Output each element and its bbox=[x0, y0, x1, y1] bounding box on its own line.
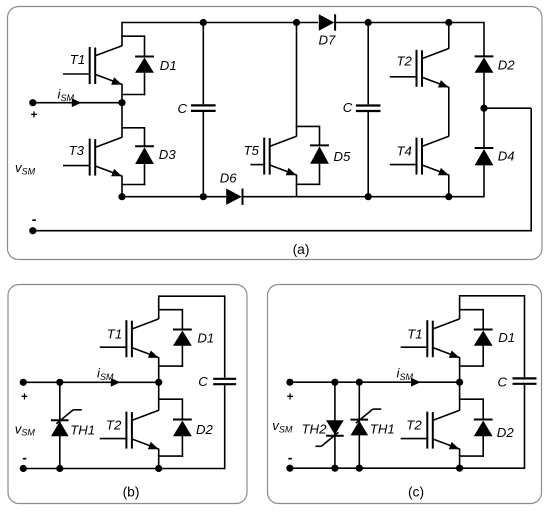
wire D4 upper vertical bbox=[483, 108, 485, 148]
wire D1 lower vertical (b) bbox=[181, 346, 183, 367]
node C2 top junction bbox=[365, 19, 372, 26]
wire top rail (b) bbox=[159, 295, 225, 297]
wire T2 emitter vertical (c) bbox=[459, 449, 461, 469]
wire top rail right segment (a) bbox=[335, 22, 484, 24]
transistor T4 (IGBT) bbox=[390, 136, 449, 175]
wire T2 collector vertical (c) bbox=[459, 382, 461, 410]
wire mid rail left segment (a) bbox=[122, 196, 226, 198]
node T5 collector junction bbox=[293, 19, 300, 26]
wire T5 emitter vertical bbox=[296, 175, 298, 197]
svg-text:T4: T4 bbox=[397, 144, 412, 159]
wire D2 upper vertical (c) bbox=[482, 398, 484, 419]
svg-text:-: - bbox=[288, 450, 293, 466]
wire D2 upper vertical bbox=[483, 22, 485, 57]
svg-text:D1: D1 bbox=[197, 331, 214, 346]
svg-text:D1: D1 bbox=[160, 58, 177, 73]
wire top rail left segment (a) bbox=[122, 22, 318, 24]
wire T3 emitter vertical bbox=[121, 176, 123, 197]
transistor T2 (IGBT) bbox=[390, 49, 449, 88]
svg-text:(b): (b) bbox=[123, 485, 140, 500]
diode D5 bbox=[310, 145, 329, 163]
svg-text:D2: D2 bbox=[498, 57, 516, 72]
capacitor C (b) bbox=[213, 379, 236, 384]
diode D6 bbox=[226, 189, 242, 205]
wire D2 lower vertical (c) bbox=[482, 436, 484, 457]
diode D2 bbox=[475, 56, 494, 72]
diode D2 bbox=[173, 420, 192, 437]
wire T2 collector vertical bbox=[448, 23, 450, 49]
svg-text:T2: T2 bbox=[106, 418, 122, 433]
wire C1 top vertical bbox=[202, 23, 204, 105]
wire C top vertical (b) bbox=[224, 295, 226, 377]
wire T2 collector vertical (b) bbox=[158, 382, 160, 410]
diode D7 bbox=[319, 14, 335, 30]
node TH2 top junction (c) bbox=[331, 379, 338, 386]
svg-text:C: C bbox=[498, 374, 508, 389]
transistor T3 (IGBT) bbox=[63, 137, 122, 176]
wire T1 collector vertical (c) bbox=[459, 295, 461, 319]
terminal - dot (a) bbox=[29, 227, 36, 234]
wire T3 collector vertical bbox=[121, 103, 123, 138]
svg-text:D7: D7 bbox=[319, 33, 337, 48]
wire T1 collector vertical bbox=[121, 22, 123, 47]
wire iSM (a) bbox=[33, 102, 122, 104]
diode D1 bbox=[474, 330, 493, 346]
wire D2 top branch (b) bbox=[158, 398, 183, 400]
svg-text:C: C bbox=[198, 374, 208, 389]
wire mid rail right segment (a) bbox=[242, 196, 484, 198]
svg-text:-: - bbox=[32, 211, 37, 227]
wire D1 top branch bbox=[121, 35, 144, 37]
wire T4 emitter vertical bbox=[448, 175, 450, 197]
current arrow iSM (a) bbox=[72, 98, 82, 107]
diode D1 bbox=[135, 57, 154, 73]
wire top rail (c) bbox=[460, 295, 525, 297]
node TH2 bottom junction (c) bbox=[331, 465, 338, 472]
svg-text:(c): (c) bbox=[408, 485, 424, 500]
svg-text:D5: D5 bbox=[334, 149, 352, 164]
terminal + dot (c) bbox=[286, 379, 293, 386]
wire C bottom vertical (c) bbox=[524, 385, 526, 469]
node TH1 top junction (b) bbox=[56, 379, 63, 386]
capacitor C (left, a) bbox=[191, 105, 216, 111]
wire T2 emitter vertical (b) bbox=[158, 449, 160, 469]
wire D1 top branch (b) bbox=[158, 309, 183, 311]
svg-text:D6: D6 bbox=[220, 171, 238, 186]
terminal + dot (a) bbox=[29, 99, 36, 106]
diode D3 bbox=[135, 146, 154, 164]
diode D1 bbox=[173, 330, 192, 346]
wire output right vertical bbox=[530, 108, 532, 231]
wire D2 top branch (c) bbox=[459, 398, 483, 400]
node TH1 bottom junction (b) bbox=[56, 465, 63, 472]
svg-text:T1: T1 bbox=[407, 326, 422, 341]
wire D1 bottom branch bbox=[121, 94, 145, 96]
node midpoint junction (c) bbox=[456, 379, 463, 386]
wire C1 bottom vertical bbox=[202, 112, 204, 197]
svg-text:T1: T1 bbox=[70, 52, 85, 67]
thyristor TH1 (b) bbox=[51, 410, 82, 436]
svg-text:C: C bbox=[178, 101, 188, 116]
wire D5 bottom branch bbox=[296, 183, 321, 185]
node D2/D4 junction bbox=[480, 105, 487, 112]
wire iSM (b) bbox=[23, 381, 158, 383]
wire iSM (c) bbox=[290, 381, 460, 383]
wire D3 lower vertical bbox=[144, 164, 146, 185]
svg-text:TH1: TH1 bbox=[370, 421, 395, 436]
wire bottom rail (b) bbox=[23, 468, 224, 470]
wire D3 upper vertical bbox=[144, 127, 146, 146]
wire D5 lower vertical bbox=[319, 164, 321, 185]
svg-text:-: - bbox=[22, 450, 27, 466]
svg-text:T2: T2 bbox=[406, 418, 422, 433]
capacitor C (right, a) bbox=[356, 106, 381, 112]
transistor T5 (IGBT) bbox=[251, 136, 297, 175]
node TH1 bottom junction (c) bbox=[356, 465, 363, 472]
wire C2 top vertical bbox=[367, 23, 369, 105]
svg-text:D2: D2 bbox=[497, 425, 515, 440]
wire D1 bottom branch (b) bbox=[158, 365, 183, 367]
svg-text:(a): (a) bbox=[293, 242, 310, 257]
transistor T1 (IGBT) bbox=[100, 319, 159, 358]
wire D1 upper vertical bbox=[144, 35, 146, 56]
current arrow iSM (b) bbox=[111, 378, 121, 387]
node C2 bottom junction bbox=[365, 193, 372, 200]
wire C2 bottom vertical bbox=[367, 112, 369, 197]
wire TH2 vertical (c) bbox=[334, 382, 336, 468]
svg-text:D1: D1 bbox=[498, 330, 515, 345]
wire output branch horizontal bbox=[484, 107, 531, 109]
terminal + dot (b) bbox=[20, 379, 27, 386]
wire T1 collector vertical (b) bbox=[158, 295, 160, 319]
svg-text:+: + bbox=[31, 110, 38, 122]
node T3 emitter junction bbox=[118, 193, 125, 200]
transistor T1 (IGBT) bbox=[401, 319, 460, 358]
node T1/T3 midpoint junction bbox=[118, 99, 125, 106]
svg-text:D4: D4 bbox=[498, 149, 515, 164]
svg-text:D3: D3 bbox=[159, 147, 177, 162]
diode D4 bbox=[475, 148, 494, 165]
transistor T2 (IGBT) bbox=[100, 410, 159, 449]
svg-text:D2: D2 bbox=[196, 422, 214, 437]
capacitor C (c) bbox=[513, 378, 537, 383]
wire T1 emitter vertical (c) bbox=[459, 357, 461, 382]
wire D1 upper vertical (b) bbox=[181, 309, 183, 330]
wire T1 emitter vertical bbox=[121, 84, 123, 103]
wire D4 lower vertical bbox=[483, 165, 485, 197]
wire bottom rail (c) bbox=[290, 467, 525, 469]
wire D3 bottom branch bbox=[121, 184, 145, 186]
diode D2 bbox=[474, 420, 493, 437]
wire T5 collector vertical bbox=[296, 23, 298, 137]
svg-text:TH2: TH2 bbox=[302, 421, 328, 436]
node T2 emitter junction (b) bbox=[155, 465, 162, 472]
wire D2 lower vertical (b) bbox=[181, 436, 183, 457]
wire T1 emitter vertical (b) bbox=[158, 357, 160, 382]
wire C bottom vertical (b) bbox=[224, 385, 226, 469]
wire C top vertical (c) bbox=[524, 295, 526, 377]
wire D2 bottom branch (c) bbox=[459, 455, 484, 457]
svg-text:T3: T3 bbox=[69, 143, 85, 158]
svg-text:+: + bbox=[21, 392, 28, 404]
wire D2 lower vertical bbox=[483, 73, 485, 109]
wire D2 bottom branch (b) bbox=[158, 455, 183, 457]
terminal - dot (b) bbox=[20, 465, 27, 472]
node C1 bottom junction bbox=[200, 193, 207, 200]
wire T2 emitter to T4 collector bbox=[448, 87, 450, 137]
wire bottom rail (a) bbox=[33, 230, 532, 232]
wire D3 top branch bbox=[121, 127, 144, 129]
current arrow iSM (c) bbox=[411, 378, 421, 387]
wire D5 top branch bbox=[296, 125, 320, 127]
svg-text:T1: T1 bbox=[107, 326, 122, 341]
wire D1 upper vertical (c) bbox=[482, 309, 484, 330]
svg-text:TH1: TH1 bbox=[70, 422, 95, 437]
transistor T1 (IGBT) bbox=[63, 46, 122, 85]
terminal - dot (c) bbox=[286, 465, 293, 472]
wire D1 bottom branch (c) bbox=[459, 365, 484, 367]
svg-text:+: + bbox=[287, 392, 294, 404]
node TH1 top junction (c) bbox=[356, 379, 363, 386]
wire D1 lower vertical (c) bbox=[482, 346, 484, 367]
node T2 collector junction bbox=[445, 19, 452, 26]
wire TH1 vertical (c) bbox=[358, 382, 360, 468]
svg-text:C: C bbox=[343, 100, 353, 115]
wire D1 top branch (c) bbox=[459, 309, 483, 311]
wire TH1 vertical (b) bbox=[59, 382, 61, 468]
node midpoint junction (b) bbox=[155, 379, 162, 386]
node T2 emitter junction (c) bbox=[456, 465, 463, 472]
wire D1 lower vertical bbox=[144, 73, 146, 96]
wire D5 upper vertical bbox=[319, 126, 321, 146]
wire D2 upper vertical (b) bbox=[181, 398, 183, 419]
thyristor TH2 (c) bbox=[315, 420, 343, 446]
svg-text:T2: T2 bbox=[397, 53, 413, 68]
svg-text:T5: T5 bbox=[244, 143, 260, 158]
thyristor TH1 (c) bbox=[351, 409, 382, 435]
node T4 emitter junction bbox=[445, 193, 452, 200]
transistor T2 (IGBT) bbox=[401, 410, 460, 449]
node C1 top junction bbox=[200, 19, 207, 26]
